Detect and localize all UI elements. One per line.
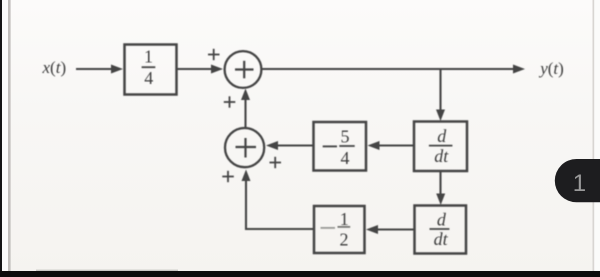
gain block 1/4	[125, 45, 177, 95]
svg-text:1: 1	[144, 47, 153, 67]
wire d/dt #2 to gain -1/2	[374, 228, 415, 230]
svg-text:dt: dt	[434, 146, 449, 166]
derivative block U2 d/dt	[415, 206, 467, 254]
plus sign for right input of S2	[270, 157, 282, 168]
summer S2	[225, 128, 264, 167]
svg-text:dt: dt	[434, 229, 449, 249]
wire S1 to output y(t)	[261, 68, 515, 70]
wire S2 up to S1	[244, 96, 246, 128]
wire d/dt #1 to gain -5/4	[376, 144, 414, 146]
plus sign for bottom input of S1	[224, 96, 236, 107]
wire branch down to d/dt #1	[439, 69, 441, 113]
svg-text:2: 2	[340, 229, 349, 249]
svg-text:4: 4	[341, 148, 350, 168]
page right edge line	[593, 0, 595, 277]
gain block -1/2	[314, 206, 365, 253]
svg-text:1: 1	[573, 170, 586, 197]
wire x(t) to gain block	[76, 68, 114, 70]
plus sign for top input of S1	[208, 49, 220, 60]
svg-text:4: 4	[144, 68, 153, 88]
derivative block U1 d/dt	[414, 122, 467, 172]
plus sign for bottom input of S2	[222, 171, 234, 182]
svg-text:d: d	[437, 210, 447, 230]
svg-text:1: 1	[340, 209, 349, 229]
wire -5/4 to summer S2	[274, 144, 314, 146]
wire d/dt #1 down to d/dt #2	[439, 171, 441, 197]
wire -1/2 back up to S2	[246, 175, 314, 229]
faint rule above bottom bar	[36, 270, 178, 272]
svg-text:d: d	[437, 126, 447, 146]
svg-text:5: 5	[341, 126, 350, 146]
page left edge line	[8, 0, 11, 277]
svg-text:x(t): x(t)	[41, 58, 66, 77]
svg-text:y(t): y(t)	[538, 59, 564, 78]
page indicator pill "1"	[555, 159, 600, 202]
left black screen edge	[0, 0, 2, 277]
bottom black bar	[0, 271, 600, 277]
summer S1	[225, 51, 262, 88]
gain block -5/4	[314, 122, 367, 171]
wire gain to summer S1	[177, 68, 215, 70]
